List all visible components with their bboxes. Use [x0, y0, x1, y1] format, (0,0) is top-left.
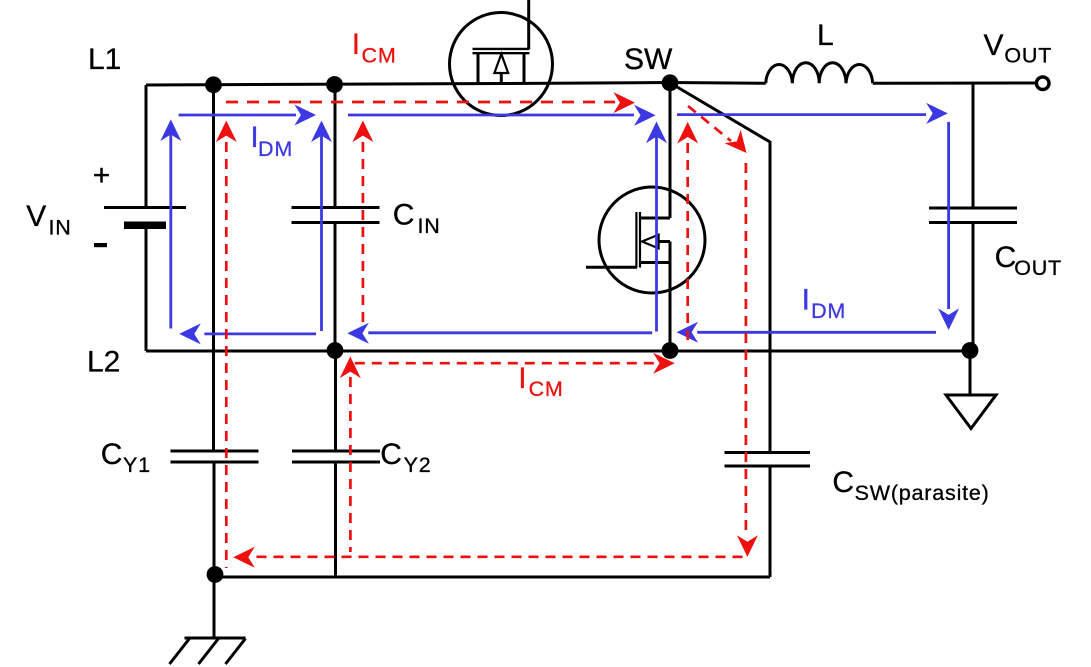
- wire SW diagonal to CSW: [672, 84, 770, 453]
- transistor Q1 high-side circle: [450, 13, 553, 116]
- wire IDM top segment 3 (blue right): [677, 113, 926, 116]
- wire bottom L2 rail: [146, 350, 973, 353]
- wire IDM input loop left (blue up): [169, 130, 172, 329]
- svg-text:L2: L2: [87, 346, 120, 379]
- node ground-CY1 dot: [207, 566, 224, 583]
- label minus: [94, 243, 107, 247]
- node L2-CY2 dot: [327, 342, 344, 359]
- svg-text:I: I: [518, 362, 526, 395]
- capacitor CSW: [725, 453, 811, 467]
- wire ICM L2 rail (red dashed right): [355, 362, 654, 365]
- svg-text:Y2: Y2: [404, 453, 432, 477]
- svg-text:C: C: [832, 466, 854, 499]
- svg-text:IN: IN: [49, 216, 72, 240]
- svg-text:C: C: [380, 438, 402, 471]
- wire ICM CY1 rise (red dashed up): [225, 142, 228, 568]
- svg-text:+: +: [93, 159, 111, 192]
- svg-text:C: C: [393, 199, 415, 232]
- earth ground symbol: [170, 638, 246, 664]
- svg-text:CM: CM: [529, 377, 564, 401]
- capacitor CY2: [292, 451, 380, 462]
- svg-text:SW: SW: [624, 43, 673, 76]
- Q2 drain stub: [640, 217, 670, 220]
- wire COUT branch: [972, 83, 975, 351]
- Q2 body stub: [652, 242, 670, 263]
- Q1 body arrow: [494, 54, 508, 73]
- wire IDM top segment 2 (blue right): [348, 114, 634, 117]
- Q2 body arrow: [642, 235, 659, 249]
- wire IDM return left piece (blue): [204, 332, 316, 335]
- wire CSW bottom: [769, 466, 772, 577]
- svg-text:C: C: [995, 241, 1017, 274]
- transistor Q2 low-side circle: [599, 187, 705, 293]
- wire CY1 branch from L1: [212, 85, 216, 638]
- Q2 source stub: [640, 261, 670, 264]
- wire IDM COUT fall (blue down): [947, 122, 950, 309]
- wire ICM Q2 rise (red dashed up): [686, 143, 689, 345]
- svg-text:OUT: OUT: [1014, 256, 1062, 280]
- wire IDM return right piece (blue): [697, 331, 936, 334]
- svg-text:I: I: [352, 28, 360, 61]
- svg-text:SW(parasite): SW(parasite): [855, 481, 990, 505]
- wire Q2 source to L2: [669, 263, 672, 352]
- svg-text:V: V: [984, 29, 1004, 62]
- ground stub right: [969, 351, 972, 395]
- wire SW to Q2 drain: [669, 83, 672, 218]
- wire CIN branch: [334, 85, 337, 352]
- Q1 body stem: [500, 73, 503, 84]
- svg-text:I: I: [802, 284, 810, 317]
- svg-text:L: L: [817, 19, 834, 52]
- svg-text:IN: IN: [418, 214, 441, 238]
- node L2-COUT dot: [962, 342, 979, 359]
- wire ICM ground return (red dashed left): [257, 555, 747, 558]
- Q1 source leg: [477, 53, 480, 84]
- wire IDM return middle piece (blue): [368, 331, 652, 334]
- wire ground bus: [215, 576, 770, 579]
- wire ICM top rail (red dashed right): [226, 101, 615, 104]
- Q1 gate bar: [473, 48, 530, 50]
- battery VIN positive plate: [104, 206, 186, 209]
- wire ICM CIN side (red dashed up): [362, 142, 365, 325]
- capacitor CIN: [292, 208, 380, 223]
- battery VIN negative plate: [124, 222, 166, 230]
- wire IDM SW rise (blue up): [655, 132, 658, 332]
- wire left vertical input: [145, 85, 148, 351]
- svg-text:L1: L1: [88, 43, 121, 76]
- node L1-CIN dot: [326, 76, 343, 93]
- wire CY2 branch: [334, 351, 337, 577]
- svg-text:Y1: Y1: [123, 453, 151, 477]
- Q1 channel bar: [473, 52, 530, 54]
- inductor L: [766, 63, 873, 84]
- Q1 gate lead: [527, 0, 530, 49]
- Q2 gate bars: [636, 212, 640, 268]
- wire ICM SW diagonal (red dashed): [688, 106, 731, 141]
- ground triangle: [946, 395, 996, 429]
- Q2 gate lead: [586, 266, 637, 269]
- svg-text:OUT: OUT: [1004, 44, 1052, 68]
- wire top L1 rail: [146, 83, 1037, 86]
- svg-text:DM: DM: [811, 299, 846, 323]
- wire IDM CIN rise (blue up): [320, 131, 323, 331]
- wire IDM top segment 1 (blue right): [179, 114, 296, 117]
- wire ICM CY2 rise (red dashed up): [349, 377, 352, 552]
- node SW dot: [662, 74, 679, 91]
- svg-text:DM: DM: [258, 137, 293, 161]
- node L1-CY1 dot: [205, 76, 222, 93]
- svg-text:C: C: [101, 438, 123, 471]
- terminal VOUT: [1036, 77, 1049, 90]
- capacitor COUT: [929, 208, 1017, 223]
- capacitor CY1: [171, 451, 259, 462]
- Q1 drain leg: [523, 53, 526, 84]
- svg-text:CM: CM: [362, 44, 397, 68]
- wire ICM CSW fall (red dashed down): [745, 163, 748, 536]
- svg-text:V: V: [26, 200, 46, 233]
- node L2-SW dot: [662, 342, 679, 359]
